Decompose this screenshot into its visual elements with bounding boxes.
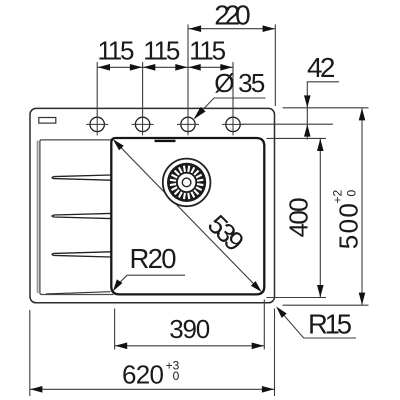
dim line 115-115-115 xyxy=(97,66,233,68)
label 400 (rotated) xyxy=(284,197,314,237)
logo plate top-left xyxy=(39,118,56,124)
drainboard groove 2 xyxy=(52,213,111,218)
bowl (390x400 inner basin) xyxy=(111,138,264,294)
svg-text:0: 0 xyxy=(345,190,359,197)
svg-text:Ø 35: Ø 35 xyxy=(214,68,265,98)
dim line 620 xyxy=(30,388,274,390)
svg-text:115: 115 xyxy=(143,35,180,65)
extension line 390 right (bowl right) xyxy=(263,300,265,350)
drainboard slope edge xyxy=(46,292,111,294)
extension line 620 right xyxy=(274,309,276,397)
svg-text:R20: R20 xyxy=(130,243,177,274)
dim line 390 xyxy=(115,345,264,347)
dim line 500 xyxy=(361,108,363,305)
extension line 620 left xyxy=(29,310,31,396)
label 500 +2/0 (rotated) xyxy=(331,189,364,249)
faucet hole 1 (crosshair circle) xyxy=(86,113,108,135)
overflow slot mark xyxy=(155,140,176,142)
drain strainer xyxy=(163,159,211,207)
faucet hole 3 (crosshair circle) xyxy=(177,113,199,135)
svg-text:400: 400 xyxy=(284,197,314,237)
42 lower arrow xyxy=(304,124,311,136)
svg-text:390: 390 xyxy=(169,314,210,344)
drainboard groove 3 xyxy=(52,252,111,257)
svg-text:620: 620 xyxy=(122,360,164,390)
extension line bowl top xyxy=(267,137,327,139)
extension lines for hole spacing dims xyxy=(97,24,275,114)
svg-text:115: 115 xyxy=(189,35,226,65)
extension line sink bottom edge xyxy=(283,304,369,306)
sink outer rim (620x500 top view) xyxy=(30,108,275,302)
dim line 400 xyxy=(319,139,321,297)
svg-text:+2: +2 xyxy=(331,189,345,203)
drainboard groove 1 xyxy=(52,175,111,180)
svg-text:115: 115 xyxy=(98,35,135,65)
svg-text:R15: R15 xyxy=(308,308,352,339)
svg-text:0: 0 xyxy=(173,369,180,383)
extension line sink top edge xyxy=(283,107,369,109)
drainboard outer edge line xyxy=(37,141,39,293)
svg-text:500: 500 xyxy=(334,203,364,249)
extension line hole centerline xyxy=(242,123,333,125)
dim line 220 xyxy=(189,28,275,30)
faucet hole 2 (crosshair circle) xyxy=(132,113,154,135)
drainboard outline xyxy=(40,140,114,295)
svg-text:42: 42 xyxy=(307,52,336,83)
label 539 (rotated 45deg) xyxy=(202,209,250,257)
svg-text:220: 220 xyxy=(214,0,251,31)
diagonal dimension line 539 xyxy=(116,142,260,290)
faucet hole 4 (crosshair circle) xyxy=(222,113,244,135)
extension line bowl bottom xyxy=(267,297,327,299)
extension line 390 left xyxy=(114,309,116,350)
